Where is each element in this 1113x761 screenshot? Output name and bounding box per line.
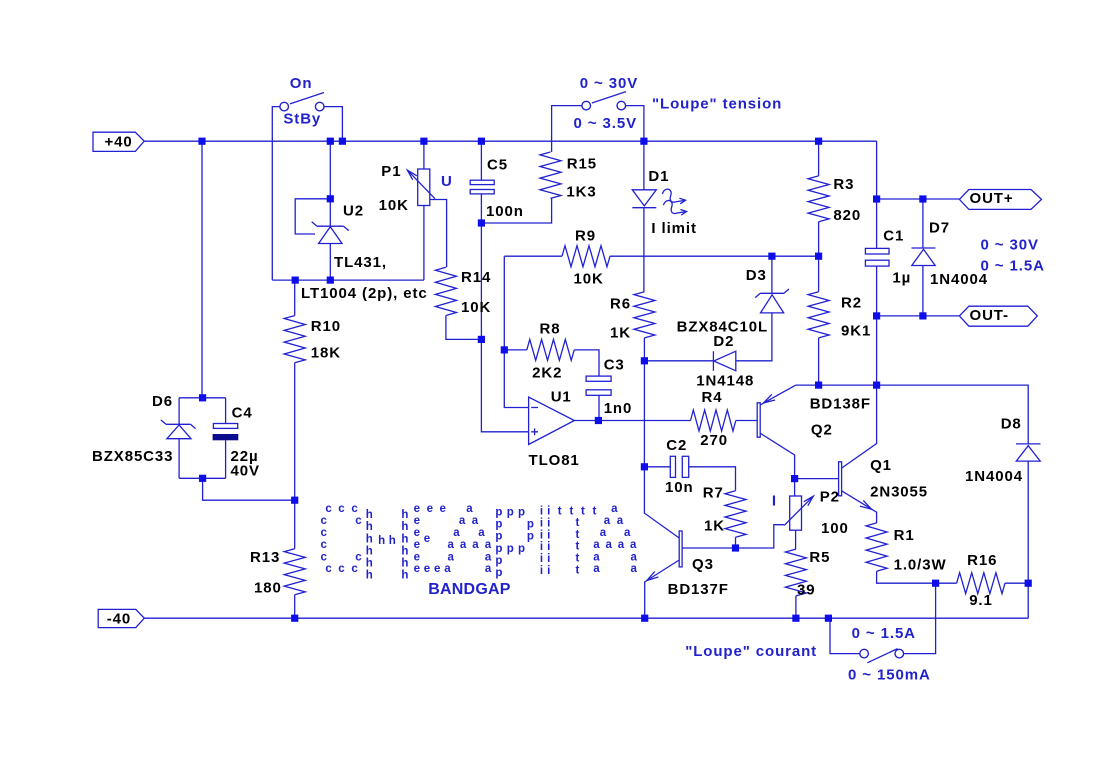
junction OUT+/D7 [919,195,926,202]
flag OUT- [959,306,1037,326]
svg-text:a: a [485,551,492,563]
resistor R6 1K [634,292,655,338]
wire D6 anode stub [178,439,180,479]
svg-text:a: a [453,527,460,539]
transistor Q3 BD137F npn [679,531,682,567]
svg-text:p: p [518,543,525,555]
svg-text:e: e [424,533,430,545]
wire C2 right to R7 top [689,467,736,491]
wire P2 top [794,479,796,496]
svg-text:270: 270 [700,432,728,449]
resistor R10 18K [284,316,305,363]
potentiometer P1 10K [418,169,430,206]
wire U2 ref loop [295,199,330,234]
svg-text:t: t [558,506,562,518]
svg-text:e: e [434,563,440,575]
svg-text:p: p [495,543,502,555]
diode D2 1N4148 [712,351,714,371]
svg-text:R13: R13 [250,549,280,566]
svg-text:D1: D1 [648,168,669,185]
wire R13 bottom to -40 rail [294,595,296,619]
svg-text:p: p [507,543,514,555]
switch S3 loupe courant [860,649,869,658]
resistor R9 10K [562,246,610,267]
svg-text:h: h [366,509,373,521]
svg-text:C2: C2 [666,437,687,454]
svg-text:10K: 10K [574,270,604,287]
wire R3 bottom tail [818,222,820,257]
wire +40 to C5 top [480,141,482,180]
wire +40 rail [144,140,876,142]
svg-text:c: c [351,503,358,515]
wire +40 corner down to OUT+ node and C1 top [876,141,878,248]
wire C3 bottom to opamp output [598,395,600,420]
junction Q3 base/R7 [732,544,739,551]
transistor Q1 2N3055 npn [839,462,842,496]
svg-text:BZX85C33: BZX85C33 [92,448,173,465]
junction +40/S2-D1 [640,138,647,145]
wire R9 left tail [504,255,562,257]
junction R10-R13/C4 net [291,497,298,504]
svg-text:9.1: 9.1 [969,592,993,609]
svg-text:a: a [593,551,600,563]
svg-text:a: a [593,539,600,551]
wire D6/C4 bottom to R10-R13 net [203,478,295,500]
svg-text:h: h [401,570,408,582]
wire emitter node rail to D8 [796,385,1028,444]
svg-text:D7: D7 [929,219,950,236]
svg-text:c: c [338,503,345,515]
power flag -40 [98,609,144,627]
wire C1 bottom to OUT- node and emitter node [876,266,878,385]
svg-text:R1: R1 [894,527,915,544]
svg-text:c: c [338,563,345,575]
svg-text:D8: D8 [1001,415,1022,432]
svg-text:R8: R8 [540,321,561,338]
svg-text:1n0: 1n0 [604,400,633,417]
wire switch S2 right to +40 rail [625,106,644,142]
svg-text:10K: 10K [461,299,491,316]
svg-text:e: e [414,503,420,515]
junction +40/P1 [420,138,427,145]
svg-text:BD137F: BD137F [668,581,729,598]
svg-text:a: a [448,551,455,563]
svg-text:180: 180 [254,580,282,597]
svg-text:R7: R7 [703,485,724,502]
wire D2 anode to D3 anode [736,313,772,361]
svg-text:t: t [576,517,580,529]
svg-text:a: a [604,515,611,527]
junction anode rail/R10 [292,277,299,284]
wire Q3 emitter to -40 rail [645,560,680,618]
capacitor C4 22u 40V electrolytic [213,424,237,429]
svg-text:TLO81: TLO81 [529,452,580,469]
svg-text:R16: R16 [967,552,997,569]
svg-text:+40: +40 [105,133,133,150]
svg-text:p: p [495,507,502,519]
wire switch S1 left to U2 anode rail [272,107,280,281]
wire Q1 emitter to R1 top [842,491,877,523]
junction OUT+/C1 [873,195,880,202]
svg-text:1K: 1K [610,325,631,342]
svg-text:18K: 18K [311,345,341,362]
svg-text:i: i [540,506,543,518]
svg-text:a: a [606,539,613,551]
junction OUT-/C1 [873,312,880,319]
wire R8 right to C3 top [574,350,599,376]
svg-text:a: a [466,503,473,515]
svg-text:40V: 40V [231,463,260,480]
svg-text:R9: R9 [575,227,596,244]
svg-text:a: a [459,515,466,527]
svg-text:I limit: I limit [651,220,696,237]
svg-text:a: a [630,539,637,551]
junction -40/Q3 emitter [641,615,648,622]
resistor R13 180 [284,549,305,595]
svg-text:R3: R3 [833,176,854,193]
junction OUT-/D7 [919,312,926,319]
wire U2 anode rail [272,279,424,281]
svg-text:c: c [355,515,362,527]
svg-text:C1: C1 [883,227,904,244]
junction R16/D8 [1025,580,1032,587]
resistor R4 270 [691,410,736,431]
wire R4 to Q2 base [736,420,757,422]
svg-text:h: h [366,570,373,582]
svg-text:9K1: 9K1 [841,322,871,339]
wire R10 bottom to R13 top [294,363,296,549]
svg-text:a: a [448,539,455,551]
wire OUT- node [877,315,960,317]
svg-text:1N4004: 1N4004 [930,271,988,288]
svg-text:0 ~ 30V: 0 ~ 30V [981,237,1039,254]
svg-text:a: a [618,539,625,551]
wire -40 rail [144,617,1028,619]
svg-text:100n: 100n [486,203,524,220]
svg-text:t: t [576,565,580,577]
svg-text:p: p [495,555,502,567]
svg-text:1K3: 1K3 [566,184,596,201]
svg-text:t: t [581,506,585,518]
svg-text:U1: U1 [551,389,572,406]
resistor R15 1K3 [540,152,561,198]
svg-text:0 ~ 1.5A: 0 ~ 1.5A [981,258,1045,275]
wire C4 bottom stub [225,440,227,478]
svg-text:a: a [472,539,479,551]
junction D6-C4 bottom [199,475,206,482]
svg-text:0 ~ 3.5V: 0 ~ 3.5V [574,115,638,132]
svg-text:i: i [547,518,550,530]
svg-text:C4: C4 [232,404,253,421]
svg-text:h: h [366,533,373,545]
svg-text:i: i [547,530,550,542]
op-amp U1 TLO81 [529,397,575,444]
svg-text:R6: R6 [610,296,631,313]
wire R7 bottom [735,537,737,548]
svg-text:On: On [290,75,313,92]
svg-text:C5: C5 [487,157,508,174]
svg-text:e: e [414,539,420,551]
svg-text:39: 39 [797,582,816,599]
svg-text:a: a [631,551,638,563]
svg-text:P2: P2 [820,488,840,505]
wire switch S1 right to +40 rail [324,107,342,142]
power flag +40 [93,132,144,151]
svg-text:a: a [485,539,492,551]
svg-text:i: i [540,518,543,530]
wire C2 left [644,466,670,468]
flag OUT+ [959,190,1041,210]
svg-text:10n: 10n [665,479,694,496]
junction R1/R16/S3 [932,580,939,587]
resistor R7 1K [725,491,746,538]
svg-text:R4: R4 [702,389,723,406]
svg-text:1µ: 1µ [892,270,911,287]
junction C2/Q3 collector [641,463,648,470]
svg-text:h: h [401,509,408,521]
svg-text:"Loupe" tension: "Loupe" tension [652,96,782,113]
svg-text:e: e [414,515,420,527]
svg-text:e: e [414,551,420,563]
shunt reference U2 TL431 [312,222,349,231]
svg-text:I: I [772,493,777,510]
svg-text:LT1004 (2p), etc: LT1004 (2p), etc [301,285,428,302]
svg-text:0 ~ 30V: 0 ~ 30V [580,75,638,92]
diode D7 1N4004 [912,247,936,249]
svg-text:2K2: 2K2 [532,364,562,381]
wire R2 bottom tail [818,338,820,385]
wire D8 anode down to -40 corner [1027,461,1029,618]
svg-text:h: h [366,521,373,533]
svg-text:h: h [366,545,373,557]
wire R6 bottom to D2 cathode [644,338,713,361]
wire R1 bottom to R16 left node [877,571,957,583]
resistor R14 10K [435,267,456,315]
junction R6/D2 [641,357,648,364]
resistor R3 820 [808,176,829,222]
svg-text:BANDGAP: BANDGAP [428,581,510,598]
svg-text:1K: 1K [704,517,725,534]
wire C4 top stub [225,398,227,424]
svg-text:h: h [401,533,408,545]
svg-text:i: i [540,541,543,553]
wire R8 left tail [504,349,527,351]
svg-text:0 ~ 1.5A: 0 ~ 1.5A [852,625,916,642]
capacitor C1 1u [865,248,889,254]
svg-text:c: c [321,527,328,539]
led D1 I limit [632,190,656,206]
svg-text:D2: D2 [713,333,734,350]
svg-text:a: a [617,515,624,527]
resistor R8 2K2 [527,339,574,360]
svg-text:StBy: StBy [283,111,321,128]
svg-text:h: h [366,558,373,570]
svg-text:t: t [593,506,597,518]
svg-text:R14: R14 [461,269,491,286]
junction -40/R5 [792,615,799,622]
svg-text:e: e [427,503,433,515]
resistor R2 9K1 [808,292,829,338]
junction +40/D6 branch [198,138,205,145]
wire D6 cathode stub [178,398,180,425]
svg-text:2N3055: 2N3055 [870,483,928,500]
capacitor C2 10n [670,456,675,477]
svg-text:OUT-: OUT- [970,307,1009,324]
wire Q1 base [795,478,839,480]
svg-text:e: e [414,527,420,539]
junction -40/S3 [825,615,832,622]
svg-text:1.0/3W: 1.0/3W [894,556,947,573]
wire U2 anode [329,244,331,281]
wire R5 bottom to -40 rail [795,596,797,618]
svg-text:"Loupe" courant: "Loupe" courant [685,643,817,660]
resistor R5 39 [785,549,806,596]
svg-text:c: c [325,563,332,575]
svg-text:i: i [540,530,543,542]
svg-text:a: a [472,515,479,527]
wire D6/C4 bottom rail [179,477,226,479]
svg-text:c: c [321,539,328,551]
diode D8 1N4004 [1016,443,1041,445]
svg-text:h: h [401,521,408,533]
junction D6-C4 top [199,394,206,401]
svg-text:R5: R5 [809,549,830,566]
wire +40 to D1 anode [643,141,645,190]
svg-text:e: e [424,563,430,575]
junction U2 cathode/ref [327,195,334,202]
svg-text:a: a [600,527,607,539]
svg-text:i: i [547,506,550,518]
svg-text:t: t [576,541,580,553]
svg-text:Q3: Q3 [692,556,714,573]
wire Q1 collector to emitter node [842,385,877,468]
svg-text:e: e [440,503,446,515]
switch S2 loupe tension [582,101,591,110]
junction Q2 coll/Q1 base/P2 [791,475,798,482]
junction emitter node/R2 [815,382,822,389]
wire P2 bottom to R5 [795,530,797,549]
junction -40/R13 [291,615,298,622]
svg-text:OUT+: OUT+ [970,190,1014,207]
wire opamp output to R4 [574,420,690,422]
svg-text:a: a [593,563,600,575]
svg-text:p: p [527,531,534,543]
switch S1 On/StBy [280,102,289,111]
wire R14 bottom to +input net [446,316,482,340]
wire D7 bottom stub [922,266,924,316]
svg-text:c: c [321,551,328,563]
svg-text:p: p [495,567,502,579]
junction R9 net/R3/R2 [815,253,822,260]
wire +40 to U2 cathode [329,141,331,226]
wire R2 top tail [818,256,820,292]
svg-text:R15: R15 [567,155,597,172]
wire Q3 base node [682,525,784,548]
junction anode rail/U2 [327,277,334,284]
svg-text:i: i [547,541,550,553]
svg-text:Q1: Q1 [870,457,892,474]
svg-text:p: p [527,519,534,531]
wire R9 left corner down to R8 node and -input [504,256,528,407]
svg-text:P1: P1 [381,163,401,180]
wire C5 to R15 bottom [481,198,551,223]
svg-text:a: a [624,527,631,539]
svg-text:i: i [547,553,550,565]
capacitor C3 1n0 [586,376,611,381]
svg-text:a: a [444,563,451,575]
wire Q3 collector to C2 node [644,467,679,538]
wire R16 right tail to D8 net [1005,582,1028,584]
svg-text:Q2: Q2 [811,422,833,439]
svg-text:D6: D6 [152,393,173,410]
wire R10 top [294,280,296,316]
svg-text:a: a [485,563,492,575]
svg-text:TL431,: TL431, [334,254,387,271]
resistor R1 1.0/3W [866,523,887,571]
svg-text:BD138F: BD138F [810,395,871,412]
junction R8/R9/-input [501,346,508,353]
junction opamp out/C3 [595,417,602,424]
svg-text:i: i [547,565,550,577]
svg-text:10K: 10K [379,197,409,214]
svg-text:h: h [389,535,396,547]
svg-text:c: c [321,515,328,527]
svg-text:p: p [507,507,514,519]
wire C5 node down to +input [481,223,528,432]
svg-text:D3: D3 [746,267,767,284]
wire P1 bottom [423,206,425,281]
wire R3 top tail [818,141,820,176]
junction R9 net/D3 [768,253,775,260]
zener D6 BZX85C33 [161,420,196,429]
transistor Q2 BD138F pnp [757,403,760,437]
svg-text:t: t [570,506,574,518]
svg-text:i: i [540,553,543,565]
svg-text:100: 100 [821,520,849,537]
svg-text:U: U [441,173,453,190]
zener D3 BZX84C10L [755,289,789,298]
svg-text:R10: R10 [311,318,341,335]
svg-text:a: a [460,539,467,551]
junction +40/C5 [478,138,485,145]
junction R14/+input [478,336,485,343]
potentiometer P2 100 [790,496,802,530]
wire D1 cathode to R6 top [643,208,645,292]
svg-text:820: 820 [833,207,861,224]
svg-text:e: e [414,563,420,575]
svg-text:p: p [495,519,502,531]
svg-text:-40: -40 [107,611,131,628]
junction +40/S1 [339,138,346,145]
wire OUT+ node [877,198,960,200]
wire R9 right tail to R3/R2 node [610,255,819,257]
svg-text:U2: U2 [343,203,364,220]
svg-text:c: c [355,551,362,563]
svg-text:1N4148: 1N4148 [696,372,754,389]
svg-text:R2: R2 [841,295,862,312]
wire D7 top stub [922,199,924,248]
svg-text:c: c [351,563,358,575]
resistor R16 9.1 [957,573,1005,594]
wire R16 bypass switch right leg [903,583,935,653]
junction +40/R3 [815,138,822,145]
wire R6-D2 node down to C2 node [643,361,645,467]
junction emitter node/C1/Q1 [873,382,880,389]
svg-text:C3: C3 [604,357,625,374]
svg-text:h: h [401,545,408,557]
svg-text:c: c [325,503,332,515]
wire C5 bottom node [480,194,482,223]
